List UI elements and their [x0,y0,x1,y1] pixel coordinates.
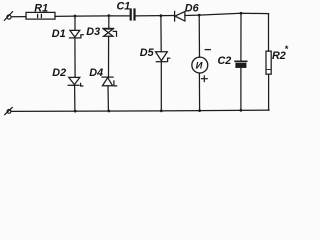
wire D5 to bottom [160,62,162,111]
wire branch to C2 [240,13,242,60]
svg-text:D1: D1 [52,28,66,40]
node dot top D1 [74,15,77,18]
bottom bus wire [11,110,269,111]
zener D3 bidirectional [103,28,117,36]
wire branch to meter [198,15,200,57]
wire D2 to bottom [74,85,76,111]
node dot top meter [198,14,201,17]
svg-text:D5: D5 [140,47,155,59]
resistor R2 [266,51,271,74]
wire C2 to bottom [240,67,242,110]
wire D3 to D4 [108,36,110,77]
zener D1 [70,30,84,38]
wire branch to D3 [108,16,110,29]
node dot bottom D2 [74,110,77,113]
zener D2 [68,77,83,86]
node dot bottom D4 [108,110,111,113]
node dot top D5 [160,14,163,17]
node dot top D3 [107,14,110,17]
svg-text:D2: D2 [52,67,66,79]
svg-text:C1: C1 [117,1,131,13]
terminal X1 top-left [4,12,12,21]
node dot top C2 [240,12,243,15]
capacitor C1 [131,10,135,20]
wire D6 to corner [185,13,269,15]
diode D5 [156,52,170,62]
wire R2 to bottom [268,74,270,110]
svg-text:И: И [196,60,203,71]
svg-text:D6: D6 [185,3,200,15]
meter plus sign [202,76,208,82]
meter minus sign [205,49,210,51]
node dot bottom meter [198,109,201,112]
svg-text:D4: D4 [89,67,103,79]
svg-text:*: * [285,44,289,54]
wire branch to D1 [74,16,76,30]
zener D4 [102,77,117,86]
node dot bottom D5 [160,109,163,112]
wire D4 to bottom [107,86,109,111]
wire terminal to R1 [11,16,26,18]
wire C1 to D6 [136,15,175,17]
wire branch to D5 [160,16,162,52]
terminal X2 bottom-left [5,108,13,115]
svg-text:D3: D3 [86,26,100,38]
svg-text:R1: R1 [34,2,48,14]
svg-text:C2: C2 [218,55,232,67]
wire corner to R2 [268,14,270,52]
resistor R1 [26,12,55,19]
wire D1 to D2 [74,38,76,78]
diode D6 [175,11,185,21]
meter U1 circle [192,57,208,73]
wire meter to bottom [198,73,200,111]
capacitor C2 polarized [235,61,247,67]
node dot bottom C2 [240,109,243,112]
wire R1 to C1 [55,15,130,18]
